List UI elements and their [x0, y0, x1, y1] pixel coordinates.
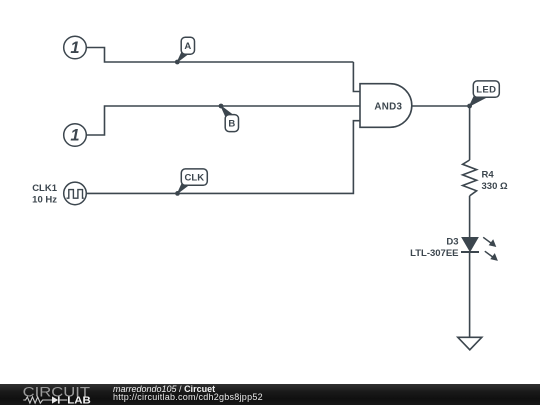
flag B box: [225, 115, 238, 132]
LED emission arrow 1: [483, 237, 496, 247]
wire resistor to diode: [469, 196, 471, 238]
resistor R4 zigzag: [463, 160, 477, 196]
wire source2 to gate input 2: [86, 106, 360, 135]
svg-text:1: 1: [70, 39, 79, 57]
svg-text:LTL-307EE: LTL-307EE: [410, 248, 458, 259]
node CLK junction dot: [175, 191, 180, 196]
svg-text:LAB: LAB: [67, 395, 91, 405]
svg-text:CLK: CLK: [185, 173, 205, 184]
node B junction dot: [219, 104, 224, 109]
svg-text:10 Hz: 10 Hz: [32, 194, 57, 205]
digital source 2 (input B): [64, 124, 87, 147]
svg-text:1: 1: [70, 127, 79, 145]
svg-text:CLK1: CLK1: [32, 183, 58, 194]
logo diode: [52, 396, 58, 403]
flag A box: [181, 37, 194, 54]
node A junction dot: [175, 60, 180, 65]
svg-text:AND3: AND3: [374, 101, 402, 112]
footer url line: [113, 393, 263, 402]
wire source1 to node A run: [86, 48, 353, 63]
logo waveform: zigzag: [23, 397, 52, 403]
flag CLK box: [181, 169, 207, 185]
svg-text:R4: R4: [482, 169, 495, 180]
diode D3 cathode bar: [461, 251, 479, 253]
svg-text:A: A: [184, 41, 191, 52]
svg-text:B: B: [228, 118, 235, 129]
flag CLK pointer wedge: [178, 183, 188, 193]
digital source 1 (top input A): [64, 36, 87, 59]
ground symbol: [458, 337, 482, 350]
CircuitLab logo: [18, 384, 118, 405]
wire LED node down to resistor: [469, 106, 471, 160]
svg-text:D3: D3: [446, 236, 458, 247]
wire CLK to gate input 3: [86, 121, 360, 194]
flag B pointer wedge: [221, 106, 231, 116]
clock source CLK1: [64, 182, 87, 205]
flag LED box: [473, 81, 499, 97]
svg-text:330 Ω: 330 Ω: [482, 181, 508, 192]
LED emission arrow 2: [485, 251, 498, 261]
wire gate output to LED node: [412, 105, 470, 107]
footer bar: [0, 384, 540, 405]
diode D3 LED triangle: [462, 238, 478, 252]
op AND3 gate body U1: [360, 84, 412, 128]
svg-text:LED: LED: [476, 85, 496, 96]
flag LED pointer wedge: [470, 96, 485, 106]
CLK1 square wave glyph: [67, 190, 84, 199]
wire A-line vertical drop to gate input 1: [353, 62, 360, 92]
flag A pointer wedge: [177, 52, 187, 62]
wire diode to ground: [469, 253, 471, 337]
footer credit line: [113, 385, 215, 394]
node LED junction dot: [467, 104, 472, 109]
